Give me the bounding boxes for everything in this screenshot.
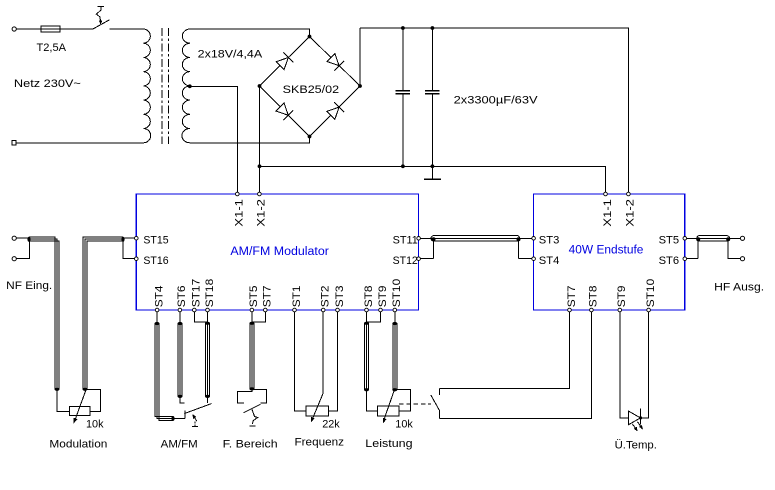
- svg-text:ST15: ST15: [143, 235, 168, 247]
- svg-text:Leistung: Leistung: [365, 438, 412, 450]
- svg-text:X1-1: X1-1: [602, 199, 614, 227]
- svg-text:ST3: ST3: [334, 286, 346, 308]
- svg-text:10k: 10k: [395, 419, 413, 431]
- svg-text:2x18V/4,4A: 2x18V/4,4A: [198, 49, 263, 61]
- svg-text:ST4: ST4: [539, 255, 560, 267]
- svg-text:ST11: ST11: [393, 235, 418, 247]
- svg-text:ST1: ST1: [291, 286, 303, 308]
- svg-text:AM/FM: AM/FM: [161, 438, 198, 450]
- svg-text:ST12: ST12: [393, 255, 418, 267]
- svg-text:HF Ausg.: HF Ausg.: [714, 281, 764, 293]
- svg-text:X1-1: X1-1: [234, 199, 246, 227]
- svg-text:ST2: ST2: [320, 286, 332, 308]
- svg-text:ST7: ST7: [566, 286, 578, 308]
- svg-text:ST6: ST6: [176, 286, 188, 308]
- svg-text:X1-2: X1-2: [256, 199, 268, 227]
- svg-text:F. Bereich: F. Bereich: [223, 438, 278, 450]
- svg-text:ST8: ST8: [363, 286, 375, 308]
- svg-text:ST16: ST16: [143, 255, 168, 267]
- svg-text:ST5: ST5: [659, 235, 680, 247]
- svg-text:Netz 230V~: Netz 230V~: [14, 78, 81, 90]
- svg-text:Frequenz: Frequenz: [295, 436, 345, 448]
- svg-text:ST6: ST6: [659, 255, 680, 267]
- svg-text:ST9: ST9: [616, 286, 628, 308]
- svg-text:AM/FM Modulator: AM/FM Modulator: [230, 246, 329, 258]
- svg-text:NF Eing.: NF Eing.: [6, 280, 52, 292]
- svg-text:ST10: ST10: [391, 279, 403, 308]
- svg-text:Modulation: Modulation: [49, 438, 107, 450]
- svg-text:40W Endstufe: 40W Endstufe: [569, 245, 644, 257]
- svg-text:ST8: ST8: [588, 286, 600, 308]
- svg-text:SKB25/02: SKB25/02: [283, 84, 340, 96]
- svg-text:ST4: ST4: [153, 286, 165, 308]
- svg-text:X1-2: X1-2: [625, 199, 637, 227]
- svg-text:T2,5A: T2,5A: [37, 42, 67, 54]
- svg-text:ST3: ST3: [539, 235, 560, 247]
- svg-text:ST5: ST5: [248, 286, 260, 308]
- svg-text:ST17: ST17: [191, 279, 203, 308]
- svg-text:2x3300µF/63V: 2x3300µF/63V: [454, 94, 539, 106]
- svg-text:ST7: ST7: [262, 286, 274, 308]
- svg-text:ST10: ST10: [645, 279, 657, 308]
- svg-text:ST9: ST9: [377, 286, 389, 308]
- svg-text:Ü.Temp.: Ü.Temp.: [615, 440, 657, 452]
- svg-text:10k: 10k: [86, 419, 104, 431]
- svg-text:ST18: ST18: [204, 279, 216, 308]
- svg-text:22k: 22k: [322, 419, 340, 431]
